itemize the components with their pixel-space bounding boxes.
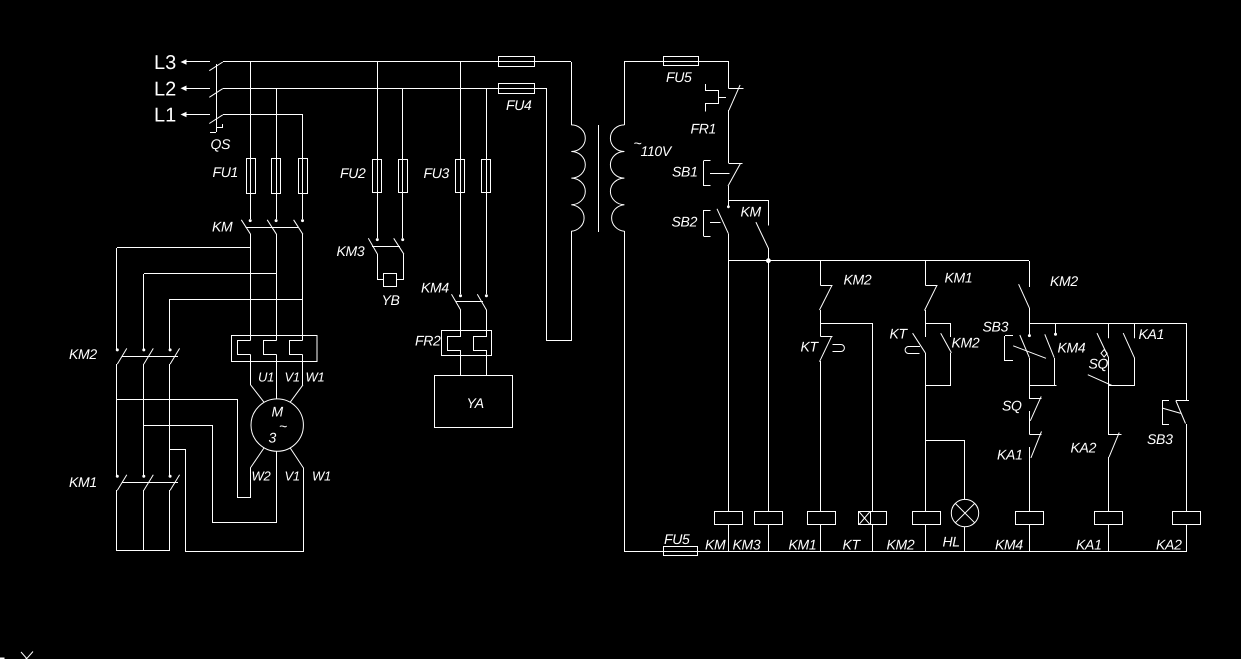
svg-text:KM2: KM2	[887, 537, 915, 553]
SECTION: transformer	[499, 57, 729, 553]
svg-text:KM: KM	[212, 219, 233, 235]
svg-text:HL: HL	[943, 534, 960, 550]
svg-text:KM4: KM4	[1058, 340, 1086, 356]
wire SQ/KA1 join	[1109, 386, 1135, 436]
svg-text:KT: KT	[843, 537, 862, 553]
wire SB1 to SB2	[728, 186, 730, 200]
svg-text:YB: YB	[382, 292, 400, 308]
svg-text:SB1: SB1	[672, 164, 698, 180]
svg-text:W2: W2	[252, 469, 272, 484]
thermal overload FR2 heaters	[415, 331, 492, 356]
contact KM4 NO parallel	[1045, 324, 1086, 386]
contactor KM3 brake contacts	[337, 238, 405, 259]
coil KA1	[1076, 512, 1123, 553]
wire KM contact to junction	[768, 248, 770, 261]
SECTION: bottom coils	[624, 499, 1201, 555]
SECTION: control circuit	[672, 61, 1190, 512]
wire KM1 NC to split	[925, 310, 927, 324]
svg-text:FU5: FU5	[664, 531, 690, 547]
wire L1 lead	[186, 114, 210, 116]
wire L3 to primary	[571, 62, 573, 125]
fuse FU5	[664, 57, 699, 86]
svg-text:QS: QS	[211, 136, 232, 152]
wire SB2 down to KM coil branch	[728, 234, 730, 512]
transformer core	[598, 125, 600, 232]
svg-text:FU4: FU4	[506, 97, 532, 113]
fuse FU1	[213, 159, 308, 194]
svg-text:KM2: KM2	[69, 346, 97, 362]
contact KT NC delayed	[801, 336, 845, 362]
svg-text:SQ: SQ	[1089, 356, 1109, 372]
wire motor bottom leads	[251, 448, 304, 468]
svg-text:KM1: KM1	[789, 537, 817, 553]
svg-text:KM4: KM4	[995, 537, 1023, 553]
wire tap phase1	[117, 248, 252, 351]
limit switch SQ NO middle	[1088, 324, 1112, 386]
wire KM2 NC to split	[820, 310, 822, 337]
wire L3 bus	[223, 61, 571, 63]
wire to KM2 coil	[925, 386, 927, 512]
wire KM2 to KM1	[117, 364, 170, 477]
contact KM2 NO high-speed branch	[1019, 261, 1079, 324]
svg-text:KM4: KM4	[421, 280, 449, 296]
wire junction to KM branch	[728, 200, 768, 202]
svg-text:L1: L1	[154, 105, 176, 127]
contact KT NO delayed	[890, 324, 926, 386]
svg-text:SQ: SQ	[1002, 398, 1022, 414]
wire KT NC to KM1 coil	[820, 361, 822, 512]
wire KM1 outputs down	[117, 490, 170, 551]
node L3	[154, 52, 187, 74]
wire FR2 to YA	[461, 350, 487, 376]
wire L2 lead	[186, 88, 210, 90]
contact KM self-hold	[741, 200, 769, 248]
wire drop to FU1-2	[276, 88, 278, 219]
wire FR1 to SB1	[728, 110, 730, 163]
contactor KM1 speed contacts	[69, 474, 180, 490]
node L1	[154, 105, 187, 127]
svg-text:L3: L3	[154, 52, 176, 74]
pushbutton SB3 NC	[1147, 400, 1189, 447]
contactor KM4 rapid contacts	[421, 280, 488, 311]
wire tap phase2	[144, 274, 277, 351]
coil KA2	[1156, 512, 1201, 553]
svg-text:KM1: KM1	[945, 270, 973, 286]
thermal contact FR1	[691, 84, 744, 137]
wire to motor W2	[117, 400, 251, 498]
node L2	[154, 79, 187, 101]
svg-text:~: ~	[279, 418, 287, 434]
svg-text:FU5: FU5	[666, 69, 692, 85]
wire to motor U2	[170, 450, 304, 552]
wire bottom rail	[624, 551, 1187, 553]
thermal overload FR heaters	[232, 336, 318, 362]
wire secondary top	[624, 61, 728, 125]
wire HL tap	[926, 440, 965, 499]
contact KM2 NO	[941, 324, 980, 386]
contact KM2 NC interlock	[820, 261, 872, 310]
svg-text:KT: KT	[801, 339, 820, 355]
wire KA1 to KM4 coil	[1029, 447, 1031, 512]
wire KM3 coil branch	[768, 261, 770, 512]
pushbutton SB3 rapid	[983, 319, 1047, 362]
wire KM outputs down	[251, 234, 303, 336]
svg-text:KM: KM	[741, 204, 762, 220]
contact KM1 NC interlock	[925, 261, 973, 311]
motor M 3~	[251, 399, 303, 451]
wire SB3/KM4 join	[1030, 358, 1057, 399]
wire drop to FU3-2	[486, 88, 488, 294]
fuse FU4	[499, 57, 535, 114]
fuse FU2	[340, 160, 408, 193]
node ~110V	[634, 135, 673, 159]
svg-text:KA2: KA2	[1071, 440, 1097, 456]
wire rail 1	[728, 260, 1029, 262]
lamp HL	[943, 499, 979, 552]
svg-text:KM3: KM3	[733, 537, 761, 553]
wire FR pass-through	[251, 336, 303, 362]
svg-text:KM2: KM2	[1050, 273, 1078, 289]
coil KM	[705, 512, 743, 553]
wire star point bus	[117, 550, 170, 552]
wire drop to FU3-1	[460, 62, 462, 294]
wire L1 bus	[223, 114, 303, 116]
coil KT timer	[843, 512, 887, 553]
limit switch SQ NO	[1002, 396, 1042, 420]
axis marker Y	[0, 652, 33, 659]
svg-text:V1: V1	[285, 469, 300, 484]
wire top to FR1	[728, 61, 730, 89]
wire drop to FU1-1	[250, 62, 252, 219]
wire drop to FU2-1	[377, 62, 379, 238]
wire KM3 to YB	[378, 254, 405, 280]
contactor KM main contacts	[212, 219, 304, 235]
wire split horizontal	[926, 323, 951, 325]
wire tap phase3	[170, 299, 304, 350]
wire SB3 to KA2 coil	[1186, 424, 1188, 512]
wire rail 2	[1029, 323, 1187, 325]
svg-text:KA1: KA1	[1076, 537, 1102, 553]
contact KA1 NO parallel	[1123, 324, 1164, 386]
wire to motor V2	[144, 426, 277, 523]
svg-text:KM2: KM2	[952, 335, 980, 351]
pushbutton SB1 stop	[672, 161, 743, 187]
svg-text:SB3: SB3	[1147, 431, 1173, 447]
wire motor top leads	[251, 362, 303, 402]
svg-text:W1: W1	[312, 469, 331, 484]
wire L2 bus	[223, 88, 547, 90]
brake electromagnet YB	[382, 274, 400, 309]
svg-text:KT: KT	[890, 326, 909, 342]
svg-text:KA2: KA2	[1156, 537, 1182, 553]
svg-text:V1: V1	[285, 370, 300, 385]
svg-text:FR1: FR1	[691, 121, 717, 137]
svg-text:FU3: FU3	[424, 165, 450, 181]
contact KA1 NO	[997, 431, 1042, 462]
SECTION: middle brake/clamp circuits	[337, 62, 513, 428]
svg-text:FU2: FU2	[340, 165, 366, 181]
fuse FU5 bottom	[664, 531, 698, 556]
coil KM3	[733, 512, 783, 553]
svg-text:KA1: KA1	[1139, 326, 1165, 342]
svg-text:SB2: SB2	[672, 214, 698, 230]
wire rail2 end down	[1186, 324, 1188, 401]
wire secondary bottom rail	[624, 231, 626, 552]
SECTION: left power circuit	[0, 52, 571, 659]
svg-text:YA: YA	[467, 395, 484, 411]
node junction dot	[766, 258, 771, 263]
wire L2 to primary	[547, 88, 572, 341]
wire parallel join	[926, 385, 951, 387]
wire SQ to KA1	[1029, 411, 1031, 435]
wire drop to FU1-3	[302, 114, 304, 219]
coil KM1	[789, 512, 836, 553]
coil KM4	[995, 512, 1044, 553]
svg-text:3: 3	[269, 430, 277, 446]
contact KA2 NC	[1071, 433, 1122, 458]
svg-text:KM: KM	[705, 537, 726, 553]
svg-text:SB3: SB3	[983, 319, 1009, 335]
svg-text:W1: W1	[306, 370, 325, 385]
fuse FU3	[424, 160, 491, 193]
wire drop to FU2-2	[402, 88, 404, 238]
svg-text:U1: U1	[258, 370, 274, 385]
wire KA2 NC to KA1 coil	[1108, 457, 1110, 512]
wire split to KT coil branch	[821, 324, 873, 513]
svg-text:FR2: FR2	[415, 333, 441, 349]
coil KM2	[887, 512, 941, 553]
contactor KM2 speed contacts	[69, 346, 180, 364]
electromagnet YA	[435, 376, 513, 428]
transformer TC secondary winding	[610, 125, 624, 231]
pushbutton SB2 start	[672, 200, 730, 237]
transformer TC primary winding	[571, 125, 585, 231]
svg-text:KM2: KM2	[844, 272, 872, 288]
switch QS	[209, 62, 231, 152]
svg-text:KM3: KM3	[337, 243, 365, 259]
svg-text:110V: 110V	[641, 143, 673, 159]
svg-text:KM1: KM1	[69, 474, 97, 490]
svg-text:KA1: KA1	[997, 447, 1023, 463]
svg-text:L2: L2	[154, 79, 176, 101]
wire KM4 to FR2	[461, 310, 487, 337]
svg-text:FU1: FU1	[213, 164, 239, 180]
wire L3 lead	[186, 61, 210, 63]
